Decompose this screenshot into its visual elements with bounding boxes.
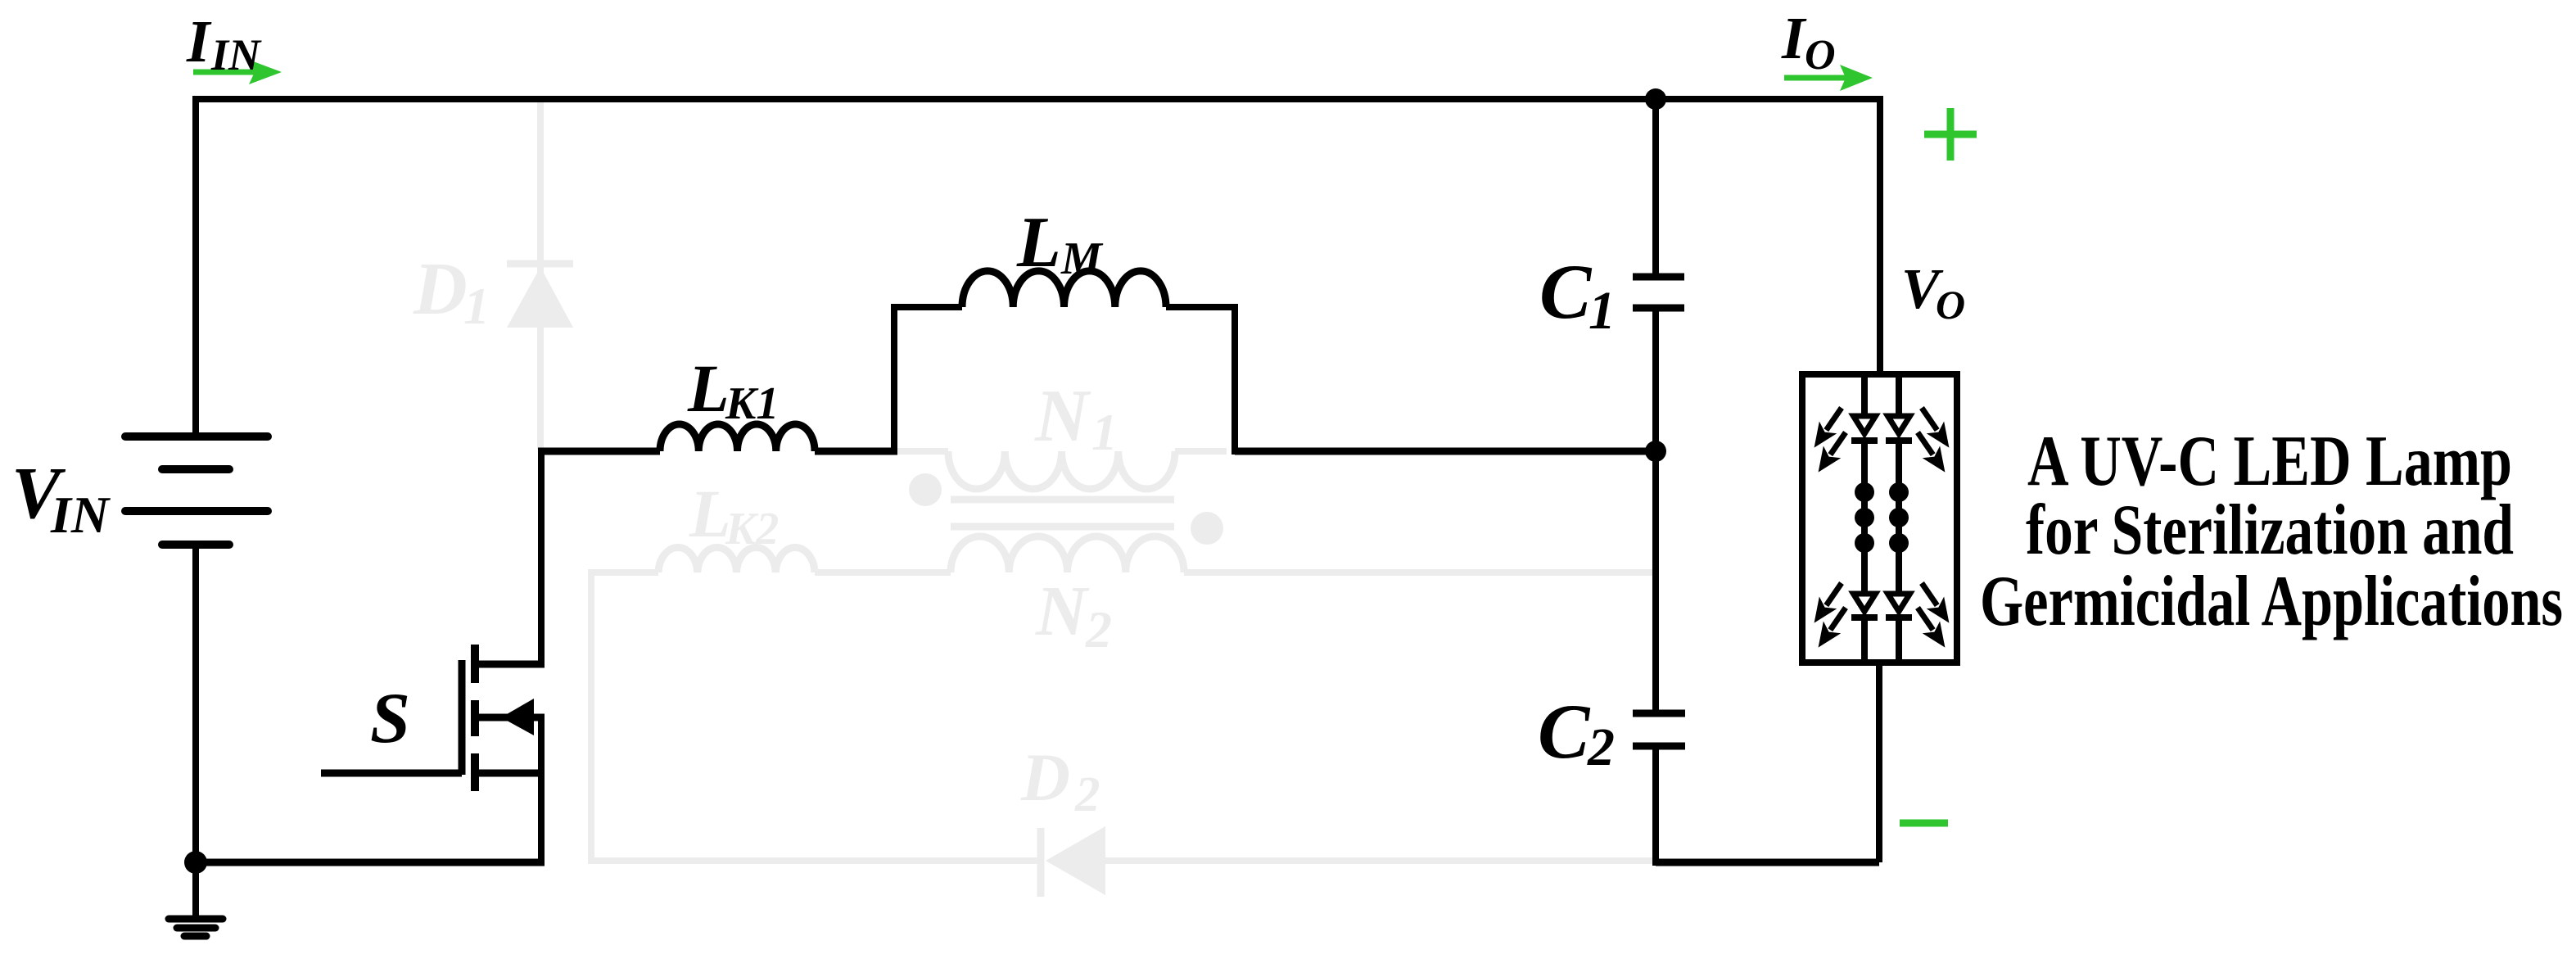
wire C branch vertical upper	[1652, 99, 1659, 274]
wire left vertical	[192, 96, 199, 437]
svg-text:S: S	[370, 679, 410, 758]
svg-text:2: 2	[1587, 717, 1615, 777]
MOSFET gate bar	[459, 660, 466, 775]
wire LED output vertical	[1876, 663, 1882, 862]
winding N2 arcs	[951, 536, 1184, 572]
diode D1 triangle	[507, 267, 573, 328]
inductor L_K2 arcs	[658, 547, 815, 572]
wire bottom right rail	[1656, 859, 1879, 866]
transformer core line lower	[951, 523, 1174, 531]
svg-text:for Sterilization and: for Sterilization and	[2026, 491, 2514, 570]
LED lamp box outline	[1802, 374, 1957, 663]
wire battery bottom lead	[192, 545, 199, 862]
MOSFET gate lead	[321, 770, 462, 777]
LED series dot left 2	[1855, 508, 1874, 527]
ground bar 1	[169, 916, 223, 923]
LED series dot right 3	[1889, 533, 1909, 553]
label N2	[1035, 571, 1112, 658]
winding N1 arcs	[948, 451, 1175, 489]
MOSFET source lead	[472, 770, 545, 777]
svg-text:1: 1	[463, 277, 490, 335]
LED D-top-right cathode bar	[1886, 437, 1912, 444]
MOSFET drain lead	[472, 661, 545, 668]
label I_IN	[186, 8, 262, 79]
wire LED string right	[1896, 374, 1902, 663]
transformer core line upper	[951, 496, 1174, 504]
svg-text:O: O	[1936, 282, 1965, 328]
svg-text:A UV-C LED Lamp: A UV-C LED Lamp	[2027, 422, 2512, 501]
label D1	[413, 247, 490, 335]
LED light ray arrow bottom-right outer	[1913, 577, 1958, 629]
LED light ray arrow bottom-left outer	[1805, 577, 1851, 629]
LED series dot left 1	[1855, 482, 1874, 502]
LED D-bottom-right cathode bar	[1886, 614, 1912, 621]
LED D-top-right triangle	[1888, 416, 1910, 434]
wire L_K1 to L_M	[815, 448, 897, 455]
MOSFET channel segment 3	[471, 753, 479, 791]
wire N1 right lead	[1175, 448, 1227, 455]
LED D-bottom-left triangle	[1854, 594, 1876, 612]
LED light ray arrow bottom-left inner	[1810, 602, 1855, 654]
wire MOSFET source vertical	[538, 717, 545, 862]
node junction dot middle	[1645, 441, 1666, 462]
wire C1 to mid junction	[1652, 311, 1659, 451]
LED series dot left 3	[1855, 533, 1874, 553]
wire top rail	[192, 96, 1883, 102]
transformer polarity dot secondary	[1191, 512, 1223, 545]
svg-text:N: N	[1034, 374, 1091, 457]
plus sign	[1924, 108, 1977, 161]
label D2	[1020, 740, 1100, 822]
svg-text:D: D	[1020, 740, 1070, 815]
ground bar 3	[184, 933, 206, 940]
svg-text:IN: IN	[210, 30, 262, 79]
wire mid junction to C2	[1652, 451, 1659, 710]
svg-text:M: M	[1060, 233, 1104, 284]
LED light ray arrow top-right inner	[1909, 427, 1954, 478]
wire N1 left lead	[897, 448, 948, 455]
LED D-bottom-left cathode bar	[1851, 614, 1878, 621]
node junction dot bottom left	[184, 851, 207, 874]
svg-text:K1: K1	[725, 378, 779, 429]
wire LED string left	[1861, 374, 1868, 663]
battery VIN plate long top	[125, 432, 268, 441]
svg-text:Germicidal Applications: Germicidal Applications	[1980, 562, 2563, 641]
svg-text:IN: IN	[50, 486, 111, 544]
label L_K1	[687, 351, 779, 429]
ground bar 2	[177, 925, 215, 932]
diode D2 triangle	[1046, 826, 1105, 895]
label N1	[1034, 374, 1118, 461]
MOSFET channel segment 1	[471, 645, 479, 683]
node junction dot top	[1645, 88, 1666, 110]
wire MOSFET drain vertical	[538, 448, 545, 664]
wire N2 right lead to output branch	[1184, 569, 1652, 576]
arrow I_O	[1784, 65, 1873, 91]
wire C2 bottom lead	[1652, 749, 1659, 866]
svg-text:L: L	[1016, 203, 1061, 283]
wire L_K2 to N2	[815, 569, 951, 576]
LED light ray arrow top-right outer	[1913, 402, 1958, 454]
svg-text:2: 2	[1074, 767, 1100, 822]
minus sign	[1900, 820, 1948, 827]
capacitor C2 plate bottom	[1633, 743, 1685, 750]
LED series dot right 1	[1889, 482, 1909, 502]
label V_IN	[11, 453, 111, 544]
label C1	[1539, 248, 1616, 341]
diode D2 cathode bar	[1037, 828, 1045, 897]
svg-text:D: D	[413, 247, 468, 330]
inductor L_M arcs	[962, 271, 1166, 307]
arrow I_IN	[193, 60, 282, 84]
svg-text:I: I	[1781, 5, 1807, 71]
wire L_K2 left lead	[588, 569, 658, 576]
capacitor C1 plate top	[1633, 274, 1684, 281]
svg-text:1: 1	[1091, 403, 1118, 461]
label L_K2	[689, 476, 779, 554]
battery VIN plate short	[162, 465, 229, 473]
battery VIN plate short bottom	[162, 541, 229, 549]
svg-text:K2: K2	[725, 504, 779, 554]
label L_M	[1016, 203, 1104, 284]
LED light ray arrow top-left inner	[1810, 427, 1855, 478]
label I_O	[1781, 5, 1836, 79]
svg-text:O: O	[1805, 32, 1836, 79]
MOSFET channel segment 2	[471, 700, 479, 736]
wire ground stem	[192, 862, 199, 919]
svg-text:I: I	[186, 8, 212, 75]
capacitor C2 plate top	[1633, 710, 1685, 717]
svg-text:1: 1	[1589, 281, 1616, 341]
transformer polarity dot primary	[909, 473, 942, 506]
svg-text:2: 2	[1085, 600, 1112, 658]
wire to L_K1	[538, 448, 660, 455]
capacitor C1 plate bottom	[1633, 305, 1684, 312]
svg-text:C: C	[1539, 248, 1593, 335]
wire L_M top left lead	[891, 304, 962, 310]
inductor L_K1 arcs	[660, 424, 815, 451]
LED D-top-left cathode bar	[1851, 437, 1878, 444]
LED series dot right 2	[1889, 508, 1909, 527]
label V_O	[1901, 258, 1965, 328]
svg-text:N: N	[1035, 571, 1090, 650]
svg-text:L: L	[687, 351, 730, 426]
svg-text:L: L	[689, 476, 731, 551]
svg-text:C: C	[1538, 688, 1591, 775]
LED light ray arrow top-left outer	[1805, 402, 1851, 454]
wire middle rail to C branch	[1235, 448, 1656, 455]
wire bottom left rail	[196, 859, 545, 866]
wire gray bottom left segment	[588, 857, 1041, 864]
wire L_M left vertical	[891, 304, 897, 451]
wire L_M right vertical	[1232, 304, 1238, 455]
wire gray left vertical	[588, 569, 594, 861]
LED D-top-left triangle	[1854, 416, 1876, 434]
diode D1 branch wire	[537, 99, 544, 450]
diode D1 cathode bar	[507, 260, 573, 268]
wire L_M top right lead	[1166, 304, 1238, 310]
MOSFET body lead	[478, 714, 545, 722]
wire output top vertical	[1877, 96, 1883, 374]
LED light ray arrow bottom-right inner	[1909, 602, 1954, 654]
battery VIN plate long	[125, 507, 268, 515]
wire gray bottom right segment	[1105, 857, 1654, 864]
LED D-bottom-right triangle	[1888, 594, 1910, 612]
transistor S body arrow	[501, 699, 534, 735]
label C2	[1538, 688, 1615, 777]
